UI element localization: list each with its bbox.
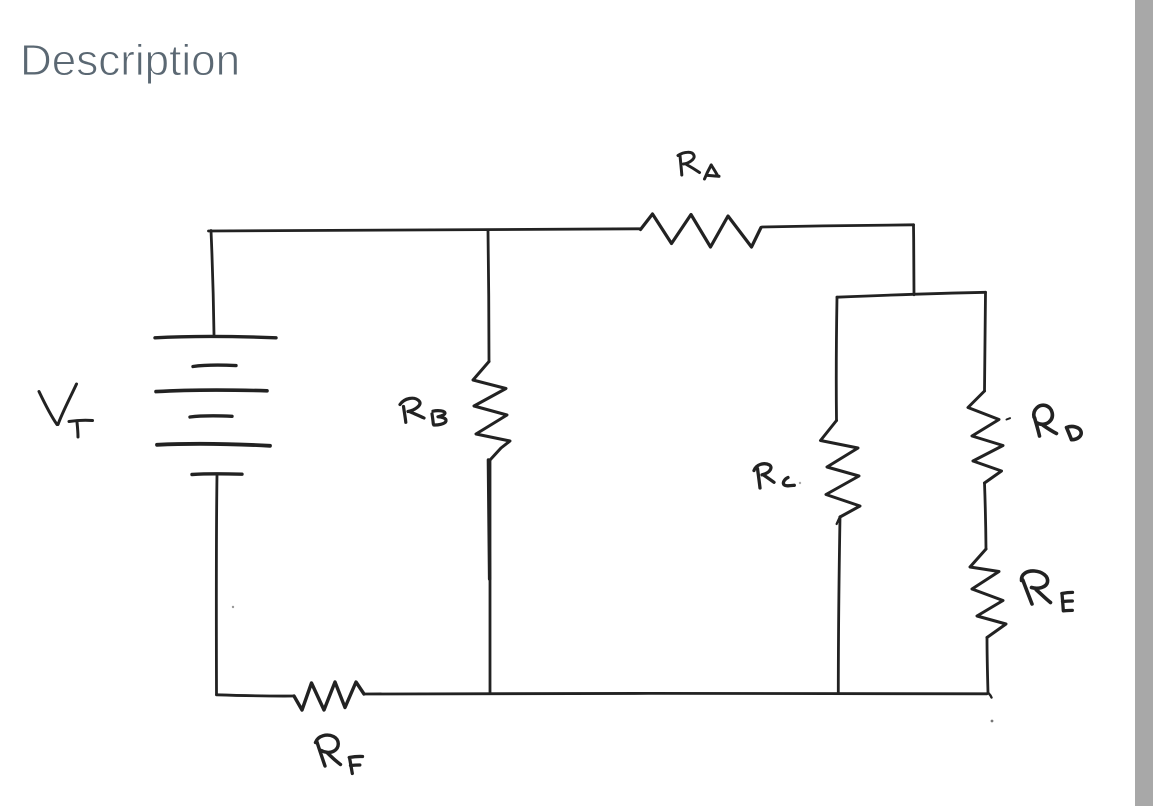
resistor R_B zigzag [473,362,510,461]
wire R_D upper vertical [985,292,986,391]
wire R_E bottom vertical [987,638,988,693]
wire battery bottom vertical [215,475,219,695]
wire bottom left segment [217,695,295,696]
label R_A subscript A [705,165,720,179]
battery V_T plate short 3 (negative terminal) [192,472,242,476]
wire R_C upper vertical [835,297,839,420]
label V_T letter V [39,384,77,425]
label R_F letter R [316,735,341,766]
label R_F subscript F [349,756,362,773]
wire right vertical x914 [912,225,915,295]
wire top right horizontal [762,225,914,227]
wire R_C lower vertical [838,517,840,694]
resistor R_A zigzag [641,214,762,247]
label R_E subscript E [1062,592,1073,610]
wire R_B lower vertical [488,460,491,693]
heading Description [20,36,240,86]
junction tick at R_C bottom [837,517,840,525]
label R_D subscript D [1067,426,1082,439]
stray dot 3 [1007,418,1011,419]
battery V_T plate long 2 [156,390,267,392]
wire bottom main segment [364,692,987,695]
stray dot 1 [232,606,234,608]
resistor R_D zigzag [968,391,1003,483]
wire mid horizontal (node between R_C and R_D) [837,292,986,297]
label R_E letter R [1021,571,1050,604]
resistor R_F zigzag [294,682,364,710]
battery V_T plate long 3 [157,444,270,446]
stray dot 4 [799,482,801,484]
label R_B subscript B [432,411,446,425]
wire left vertical [211,231,214,335]
wire R_B upper vertical [488,231,489,362]
wire top horizontal (node top) [209,229,641,231]
stray dot 2 [991,720,994,723]
label R_D letter R [1034,405,1057,436]
label R_B letter R [400,398,424,422]
label R_C letter R [754,464,774,488]
battery V_T plate long 1 (positive) [155,336,276,337]
label R_A letter R [678,152,700,175]
wire R_D to R_E connector [985,483,987,549]
resistor R_C zigzag [821,421,861,518]
scrollbar [1135,0,1153,806]
wire R_B lower vertical retrace (double stroke) [488,460,489,579]
battery V_T plate short 2 [190,416,232,417]
label R_C subscript c [783,478,794,486]
battery V_T plate short 1 [193,365,236,366]
resistor R_E zigzag [970,549,1006,638]
label V_T subscript T [69,420,93,437]
wire bottom right corner hook [988,693,992,698]
